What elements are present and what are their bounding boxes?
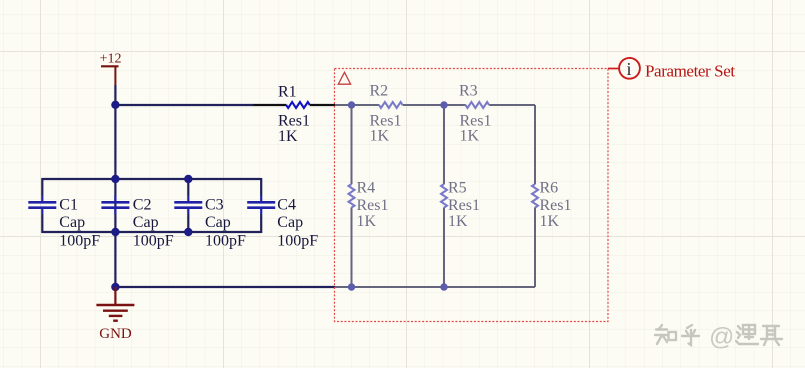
node junction C2 bottom rail	[111, 228, 119, 236]
svg-text:C3: C3	[205, 197, 224, 214]
svg-text:Parameter Set: Parameter Set	[645, 62, 735, 81]
svg-text:C1: C1	[59, 197, 78, 214]
svg-text:R4: R4	[357, 180, 376, 197]
power +12	[100, 52, 122, 86]
svg-text:1K: 1K	[370, 128, 390, 145]
svg-text:Cap: Cap	[59, 214, 85, 231]
svg-text:1K: 1K	[448, 213, 468, 230]
compile mask triangle	[338, 72, 350, 84]
svg-text:Cap: Cap	[205, 214, 231, 231]
svg-text:1K: 1K	[460, 128, 480, 145]
svg-text:100pF: 100pF	[277, 233, 318, 250]
node GND junction	[111, 283, 119, 291]
svg-text:R6: R6	[540, 180, 559, 197]
wire main vertical	[114, 105, 116, 287]
watermark	[655, 325, 782, 345]
wire top rail inside blanket segment 2	[403, 104, 466, 106]
svg-text:i: i	[626, 59, 631, 79]
svg-text:1K: 1K	[278, 128, 298, 145]
node junction C3 top rail	[184, 175, 192, 183]
svg-text:C4: C4	[277, 197, 296, 214]
svg-text:R1: R1	[278, 83, 297, 100]
node junction R3-R5 top	[440, 101, 447, 108]
wire top horizontal to R1	[115, 104, 254, 106]
resistor R5	[441, 180, 480, 230]
wire vertical branch R4 lower	[351, 207, 353, 287]
resistor R6	[532, 180, 571, 230]
wire vertical branch R6 lower	[534, 207, 536, 287]
capacitor C2	[101, 196, 173, 250]
wire top rail inside blanket segment 1	[335, 104, 379, 106]
wire capacitor bottom rail	[42, 231, 261, 233]
svg-text:R3: R3	[459, 82, 478, 99]
wire vertical branch R5 lower	[443, 207, 445, 287]
svg-text:C2: C2	[133, 197, 152, 214]
wire bottom rail to blanket	[115, 286, 335, 288]
wire +12 stem	[114, 85, 116, 105]
parameter set directive	[608, 58, 735, 81]
capacitor C3	[174, 178, 246, 250]
svg-text:Res1: Res1	[540, 197, 572, 214]
wire capacitor top rail	[42, 178, 261, 180]
wire vertical branch R6 upper	[534, 105, 536, 184]
node junction R5 bottom	[440, 283, 447, 290]
svg-text:Res1: Res1	[448, 197, 480, 214]
blanket dashed region	[335, 69, 609, 322]
svg-text:GND: GND	[99, 326, 132, 342]
resistor R4	[349, 180, 389, 230]
capacitor C4	[247, 178, 318, 250]
svg-text:Res1: Res1	[357, 197, 389, 214]
svg-text:1K: 1K	[540, 213, 560, 230]
wire top rail inside blanket segment 3	[489, 104, 535, 106]
ground GND	[96, 287, 134, 342]
svg-text:100pF: 100pF	[133, 233, 174, 250]
node junction C2 top rail	[111, 175, 119, 183]
svg-text:100pF: 100pF	[205, 233, 246, 250]
svg-text:Cap: Cap	[133, 214, 159, 231]
wire vertical branch R4 upper	[351, 105, 353, 184]
resistor R3	[459, 82, 492, 144]
resistor R1	[254, 83, 336, 145]
node junction R4 bottom	[348, 283, 355, 290]
svg-text:1K: 1K	[357, 213, 377, 230]
svg-text:R5: R5	[448, 180, 467, 197]
svg-text:R2: R2	[370, 82, 389, 99]
svg-text:100pF: 100pF	[59, 233, 100, 250]
resistor R2	[370, 82, 403, 144]
svg-text:+12: +12	[100, 52, 122, 67]
wire bottom rail inside blanket	[335, 286, 535, 288]
wire vertical branch R5 upper	[443, 105, 445, 184]
node junction C3 bottom rail	[184, 228, 192, 236]
node at +12 junction	[111, 101, 119, 109]
svg-text:@: @	[709, 323, 734, 351]
capacitor C1	[28, 178, 100, 250]
svg-text:Cap: Cap	[277, 214, 303, 231]
node junction R2-R4 top	[348, 101, 355, 108]
